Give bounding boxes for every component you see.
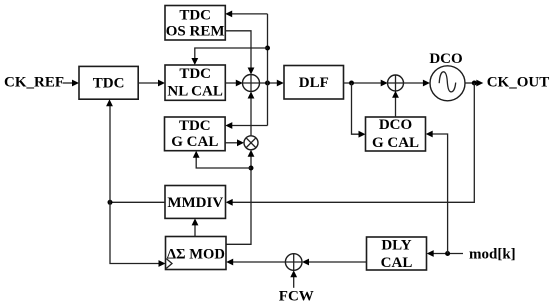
node junction dot on modk line (445, 251, 450, 256)
wire CK_OUT feedback down to MMDIV right input with arrow (231, 83, 474, 202)
svg-text:TDC: TDC (179, 118, 211, 134)
wire to TDC OS REM input with arrow (231, 13, 268, 15)
svg-text:CK_OUT: CK_OUT (487, 75, 550, 91)
svg-text:FCW: FCW (279, 288, 314, 304)
node junction dot x=267.5 y=48 (265, 46, 270, 51)
wire S1 output feedback vertical x=267.5 (267, 14, 269, 126)
wire M1 output to S1 bottom with arrow (250, 96, 252, 136)
block MMDIV (165, 186, 226, 219)
wire DS MOD output up to M1 bottom with arrow (226, 154, 251, 244)
svg-text:TDC: TDC (179, 7, 211, 23)
wire CK_REF to TDC with arrow (63, 82, 74, 84)
block DLF (284, 66, 344, 100)
block DS MOD delta-sigma modulator (166, 237, 227, 270)
svg-text:DCO: DCO (429, 51, 462, 67)
wire FCW input up to S3 bottom with arrow (293, 275, 295, 288)
wire DS MOD output up to MMDIV bottom with arrow (194, 223, 196, 237)
oscillator DCO (430, 66, 465, 101)
svg-text:CK_REF: CK_REF (4, 75, 64, 91)
wire TDC to TDC NL CAL with arrow (138, 82, 159, 84)
svg-text:G CAL: G CAL (171, 134, 218, 150)
block TDC G CAL (165, 117, 226, 151)
clock chevron on DS MOD (166, 259, 172, 269)
wire TDC G CAL output to multiplier M1 with arrow (225, 142, 239, 144)
wire mod[k] to DLY CAL right input with arrow (433, 253, 464, 255)
wire DLY CAL output to S3 right with arrow (307, 261, 367, 263)
node junction dot after DLF (349, 81, 354, 86)
wire S2 to DCO with arrow (403, 82, 424, 84)
svg-text:MMDIV: MMDIV (167, 195, 223, 211)
multiplier M1 (244, 136, 258, 150)
wire tap to TDC G CAL bottom input with arrow (196, 155, 251, 168)
svg-text:CAL: CAL (381, 255, 413, 271)
wire DLF to summer S2 with arrow (344, 82, 383, 84)
block DLY CAL (367, 237, 427, 270)
svg-text:NL CAL: NL CAL (167, 84, 222, 100)
svg-text:OS REM: OS REM (166, 24, 225, 40)
wire TDC OS REM output to S1 top with arrow (225, 31, 251, 70)
wire DLF tap down to DCO G CAL left input with arrow (352, 83, 361, 134)
node junction dot after S1 (265, 81, 270, 86)
svg-text:DCO: DCO (379, 117, 412, 133)
svg-text:DLY: DLY (381, 238, 411, 254)
wire to TDC G CAL right input with arrow (231, 125, 268, 127)
wire DCO to CK_OUT with arrow (465, 82, 478, 84)
block TDC OS REM (165, 6, 225, 41)
block TDC NL CAL (165, 65, 225, 100)
wire to TDC NL CAL top input with arrow (195, 48, 268, 61)
svg-text:TDC: TDC (93, 76, 125, 92)
block TDC (79, 66, 138, 99)
svg-text:TDC: TDC (179, 66, 211, 82)
svg-text:DLF: DLF (299, 75, 329, 91)
svg-text:ΔΣ MOD: ΔΣ MOD (167, 246, 225, 262)
wire S1 to DLF with arrow (260, 82, 278, 84)
wire divider up to TDC bottom with arrow (109, 104, 111, 203)
node junction dot on divider output (108, 200, 113, 205)
wire divider down to DS MOD clock input with arrow (110, 202, 160, 263)
wire TDC NL CAL to summer S1 with arrow (225, 82, 237, 84)
wire S3 output to DS MOD right input with arrow (232, 261, 286, 263)
node junction dot after DCO (472, 81, 477, 86)
wire DCO G CAL output up to S2 bottom with arrow (395, 95, 397, 117)
svg-text:G CAL: G CAL (372, 135, 419, 151)
summer S3 FCW adder (285, 254, 302, 271)
svg-text:mod[k]: mod[k] (469, 246, 516, 262)
node junction dot on M1 input line (249, 166, 254, 171)
wire MMDIV output left (110, 201, 165, 203)
block DCO G CAL (366, 117, 426, 151)
summer S2 DCO input adder (388, 75, 404, 91)
summer S1 phase adder (243, 75, 260, 92)
wire mod[k] up to DCO G CAL right input with arrow (431, 134, 447, 254)
